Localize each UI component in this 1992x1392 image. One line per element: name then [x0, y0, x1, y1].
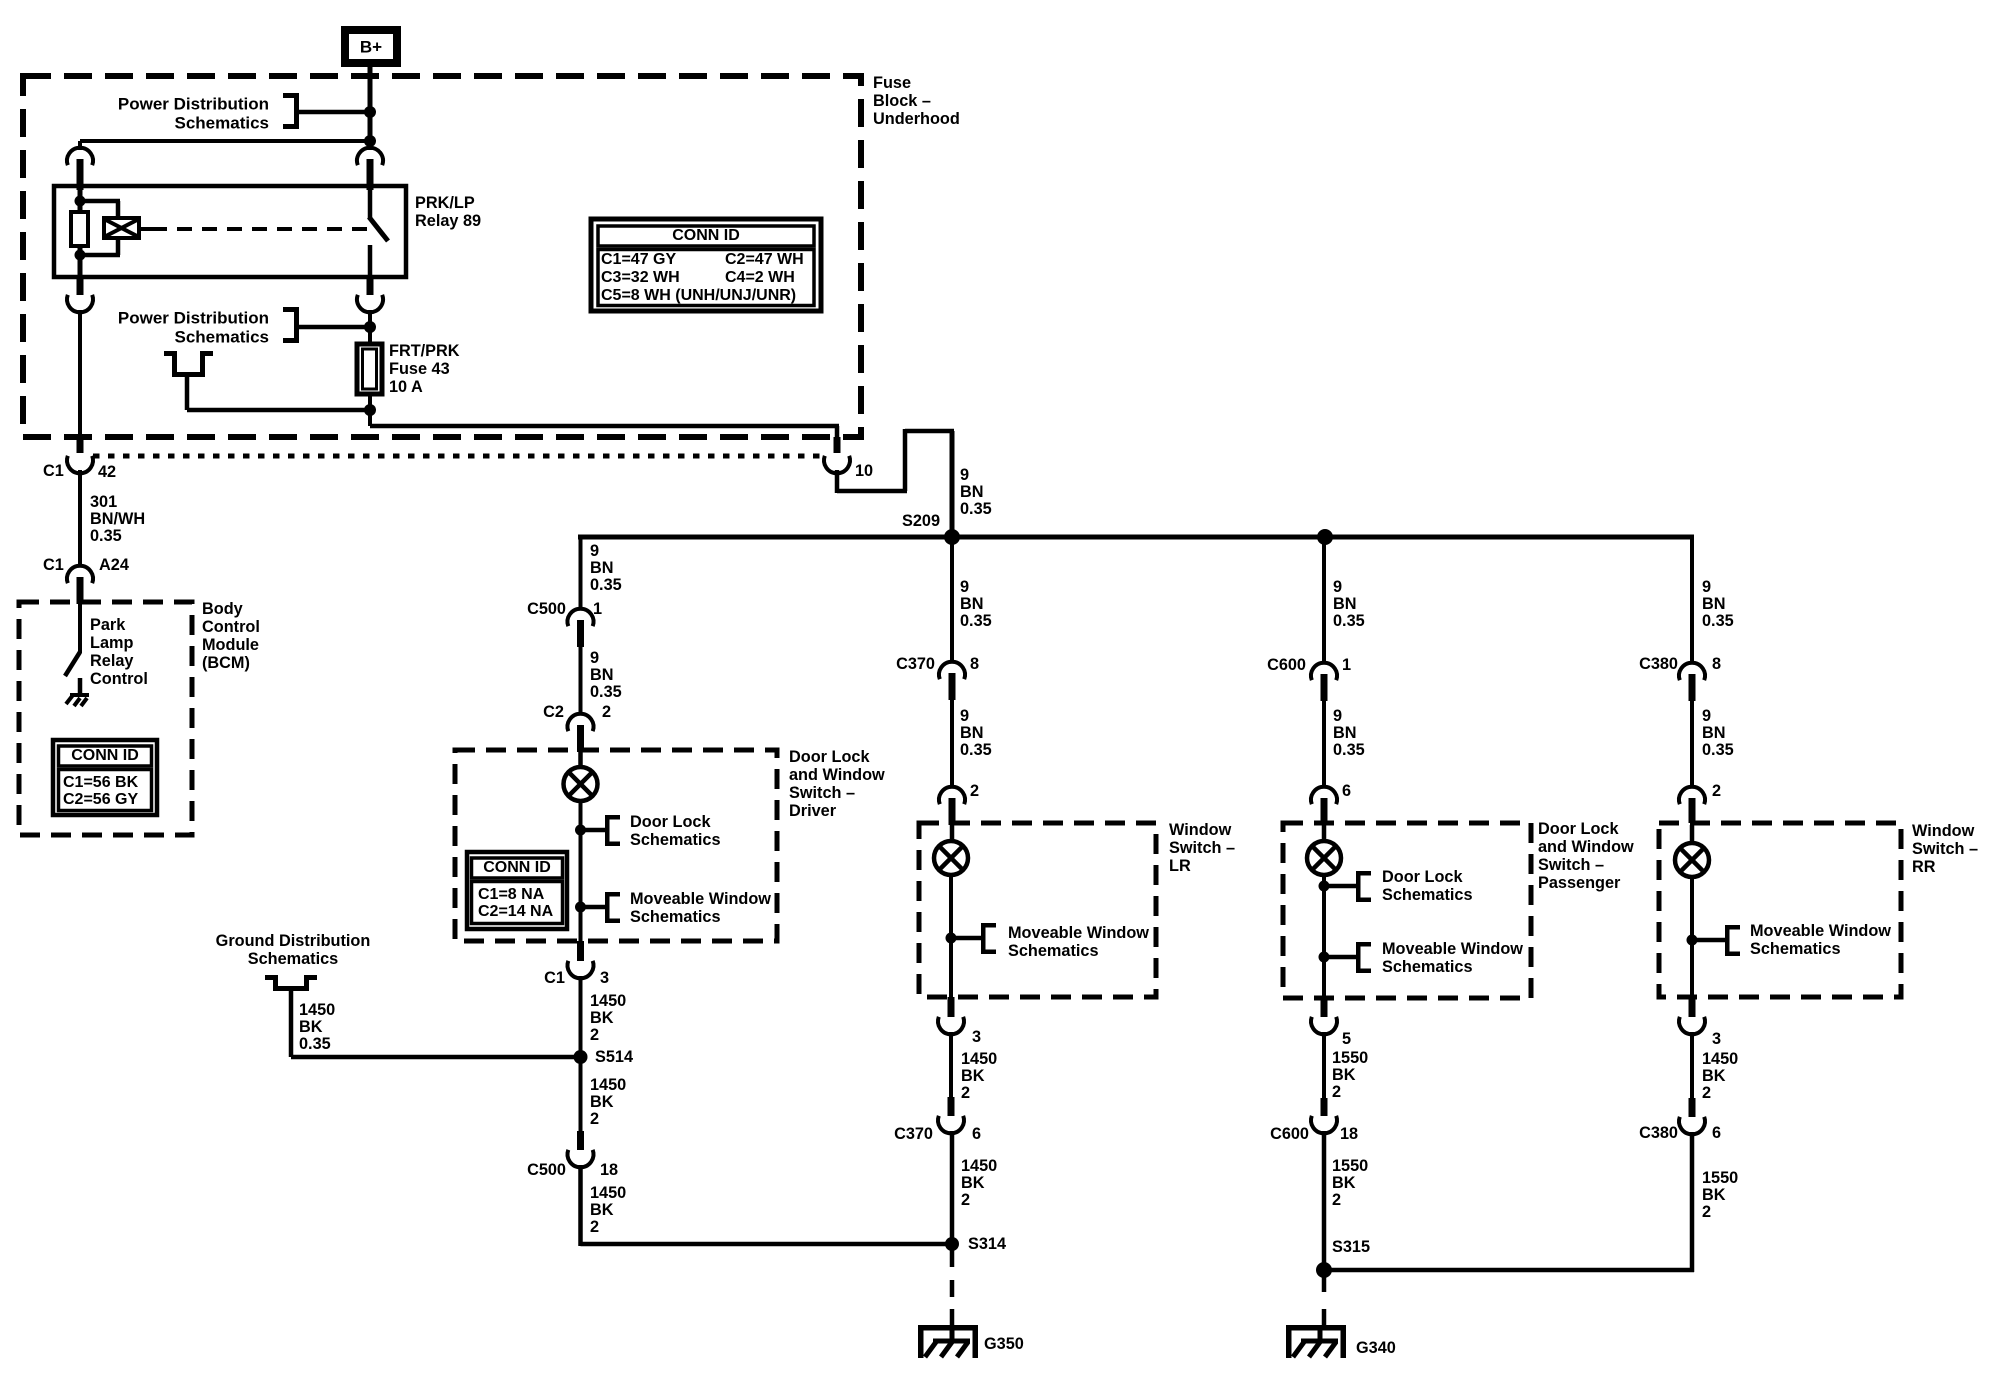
- svg-text:BN: BN: [960, 595, 984, 613]
- wire C1-3 to S514: [579, 976, 583, 1057]
- wire into lamp (LR): [950, 825, 955, 842]
- svg-text:9: 9: [960, 707, 969, 725]
- connector C2 pin 2: [543, 703, 611, 721]
- svg-text:2: 2: [1332, 1191, 1341, 1209]
- svg-text:and Window: and Window: [1538, 838, 1634, 856]
- tap under Ground Distribution: [265, 975, 317, 1057]
- svg-text:1550: 1550: [1702, 1169, 1738, 1187]
- wire S209 to C370-8: [950, 537, 954, 663]
- svg-text:2: 2: [590, 1026, 599, 1044]
- label G340: [1356, 1339, 1396, 1357]
- svg-text:Fuse: Fuse: [873, 74, 911, 92]
- svg-text:BK: BK: [1702, 1067, 1726, 1085]
- label Door Lock and Window Switch - Passenger: [1538, 820, 1634, 892]
- svg-text:1550: 1550: [1332, 1049, 1368, 1067]
- label 9 BN 0.35 (passenger lower): [1333, 707, 1365, 759]
- label 1450 BK 2 (driver mid): [590, 1076, 626, 1128]
- BCM internal ground: [66, 693, 89, 706]
- svg-text:C500: C500: [527, 1161, 566, 1179]
- svg-text:Moveable Window: Moveable Window: [630, 890, 771, 908]
- svg-text:8: 8: [970, 655, 979, 673]
- svg-text:Power Distribution: Power Distribution: [118, 95, 269, 114]
- svg-text:CONN ID: CONN ID: [71, 747, 139, 764]
- tap under Power Distribution (lower): [164, 351, 370, 412]
- junction moveable window tap (driver): [575, 902, 605, 913]
- svg-text:Relay 89: Relay 89: [415, 212, 481, 230]
- svg-text:Door Lock: Door Lock: [1382, 868, 1463, 886]
- main distribution bus: [578, 535, 1694, 540]
- relay switch contacts: [368, 190, 388, 277]
- svg-text:LR: LR: [1169, 857, 1191, 875]
- svg-text:A24: A24: [99, 556, 129, 574]
- wire C370-6 to S314: [950, 1131, 955, 1244]
- wire relay switch to fuse: [364, 310, 376, 344]
- svg-text:Block –: Block –: [873, 92, 931, 110]
- connector C500 pin 1: [527, 600, 602, 618]
- svg-text:Schematics: Schematics: [630, 908, 721, 926]
- label Moveable Window Schematics (passenger): [1382, 940, 1523, 976]
- svg-text:Park: Park: [90, 616, 126, 634]
- ground G350: [918, 1325, 978, 1358]
- svg-text:6: 6: [1342, 782, 1351, 800]
- window switch LR dashed box: [919, 823, 1156, 997]
- svg-text:BK: BK: [590, 1009, 614, 1027]
- label 1450 BK 2 (RR upper): [1702, 1050, 1738, 1102]
- svg-text:RR: RR: [1912, 858, 1936, 876]
- label 1550 BK 2 (RR lower): [1702, 1169, 1738, 1221]
- wire S315 to RR branch: [1324, 1268, 1694, 1273]
- connector C380 pin 6: [1679, 1098, 1705, 1134]
- connector C370 pin 6: [938, 1097, 964, 1133]
- svg-text:BN: BN: [1333, 724, 1357, 742]
- label Moveable Window Schematics (LR): [1008, 924, 1149, 960]
- wire fuse block output run: [370, 424, 839, 437]
- svg-text:2: 2: [590, 1218, 599, 1236]
- fuse block underhood dashed box: [23, 76, 861, 437]
- svg-text:S315: S315: [1332, 1238, 1370, 1256]
- splice S314: [945, 1235, 1006, 1253]
- svg-text:Fuse 43: Fuse 43: [389, 360, 450, 378]
- svg-text:6: 6: [972, 1125, 981, 1143]
- relay actuating dashed link: [139, 227, 375, 231]
- svg-text:C600: C600: [1267, 656, 1306, 674]
- wire relay to C1-42: [78, 310, 82, 437]
- bracket Moveable Window Schematics (RR): [1725, 925, 1740, 956]
- splice S315: [1316, 1238, 1370, 1278]
- svg-text:0.35: 0.35: [590, 683, 622, 701]
- wire C500-18 to S314: [578, 1165, 952, 1246]
- svg-text:S314: S314: [968, 1235, 1006, 1253]
- svg-text:Switch –: Switch –: [1169, 839, 1235, 857]
- wire C380-6 to S315 run: [1690, 1132, 1695, 1272]
- svg-text:and Window: and Window: [789, 766, 885, 784]
- svg-text:Schematics: Schematics: [248, 950, 339, 968]
- indicator lamp (passenger): [1307, 841, 1341, 875]
- wire lamp to tap (RR): [1690, 876, 1694, 997]
- connector C380 pin 8: [1639, 655, 1721, 673]
- wire from 10 to S209: [835, 429, 955, 537]
- svg-text:G350: G350: [984, 1335, 1024, 1353]
- label 1450 BK 2 (LR upper): [961, 1050, 997, 1102]
- label C1 42: [43, 462, 116, 481]
- svg-text:0.35: 0.35: [90, 527, 122, 545]
- indicator lamp (driver): [564, 767, 598, 801]
- svg-text:Door Lock: Door Lock: [789, 748, 870, 766]
- svg-text:9: 9: [960, 578, 969, 596]
- junction at passenger branch: [1317, 529, 1333, 545]
- relay PRK/LP Relay 89 box: [54, 186, 406, 277]
- connector at relay pin (coil): [67, 148, 93, 190]
- svg-text:C370: C370: [896, 655, 935, 673]
- label PRK/LP Relay 89: [415, 194, 481, 230]
- label Door Lock Schematics (passenger): [1382, 868, 1473, 904]
- label Body Control Module (BCM): [202, 600, 260, 672]
- wire C1-42 to C1-A24: [78, 470, 82, 567]
- svg-text:2: 2: [602, 703, 611, 721]
- svg-text:Schematics: Schematics: [630, 831, 721, 849]
- svg-text:2: 2: [1702, 1084, 1711, 1102]
- connector pin 5 (passenger): [1311, 998, 1337, 1034]
- wire pin3 to C380-6: [1690, 1032, 1694, 1098]
- label 301 BN/WH 0.35: [90, 493, 145, 545]
- svg-text:BK: BK: [590, 1201, 614, 1219]
- power feed B+ terminal: [341, 26, 401, 67]
- svg-text:Schematics: Schematics: [1750, 940, 1841, 958]
- svg-text:1450: 1450: [1702, 1050, 1738, 1068]
- svg-text:BK: BK: [961, 1174, 985, 1192]
- ground G340: [1286, 1325, 1346, 1358]
- svg-text:3: 3: [972, 1028, 981, 1046]
- driver door switch dashed box: [455, 750, 777, 941]
- wire C380-8 to switch: [1690, 701, 1694, 788]
- label 9 BN 0.35 (RR upper): [1702, 578, 1734, 630]
- svg-text:Schematics: Schematics: [1382, 958, 1473, 976]
- junction moveable window tap (passenger): [1319, 952, 1357, 963]
- connector C600 pin 1: [1267, 656, 1351, 674]
- connector C500 pin 18: [568, 1131, 594, 1167]
- svg-text:0.35: 0.35: [960, 741, 992, 759]
- junction moveable window tap (RR): [1687, 935, 1726, 946]
- wire C600-18 to S315: [1322, 1131, 1327, 1270]
- label FRT/PRK Fuse 43 10 A: [389, 342, 460, 396]
- relay solid-state device (diode box): [104, 218, 139, 238]
- indicator lamp (RR): [1675, 843, 1709, 877]
- svg-text:S209: S209: [902, 512, 940, 530]
- svg-text:Relay: Relay: [90, 652, 133, 670]
- bracket Moveable Window Schematics (LR): [981, 923, 996, 954]
- svg-text:C2=14 NA: C2=14 NA: [478, 903, 554, 920]
- svg-text:9: 9: [1333, 707, 1342, 725]
- svg-text:18: 18: [1340, 1125, 1358, 1143]
- label Moveable Window Schematics (driver): [630, 890, 771, 926]
- svg-text:C4=2 WH: C4=2 WH: [725, 269, 795, 286]
- svg-text:Underhood: Underhood: [873, 110, 960, 128]
- svg-text:Switch –: Switch –: [789, 784, 855, 802]
- svg-text:9: 9: [1333, 578, 1342, 596]
- connector pin 3 (RR): [1679, 997, 1705, 1034]
- connector C1 pin 3: [568, 941, 594, 978]
- svg-text:Lamp: Lamp: [90, 634, 133, 652]
- svg-text:0.35: 0.35: [960, 612, 992, 630]
- bracket to Power Distribution (top): [283, 93, 370, 129]
- splice S209: [902, 512, 960, 545]
- wire across to relay coil side: [78, 139, 370, 150]
- wire pin3 to C370-6: [949, 1032, 953, 1097]
- fuse block CONN ID table: [591, 219, 821, 311]
- connector pin 2 (LR): [970, 782, 979, 800]
- label 9 BN 0.35 (driver lower): [590, 649, 622, 701]
- wire lamp to door lock tap: [579, 800, 583, 903]
- svg-text:C1: C1: [43, 462, 64, 480]
- bracket Moveable Window Schematics (driver): [605, 892, 620, 923]
- relay coil branch: [75, 190, 121, 218]
- wire bus to C380-8: [1690, 537, 1694, 664]
- label Door Lock Schematics (driver): [630, 813, 721, 849]
- wire into lamp: [578, 752, 583, 768]
- svg-text:0.35: 0.35: [1702, 741, 1734, 759]
- relay coil (winding): [71, 212, 88, 246]
- connector pin 3 (LR): [938, 997, 964, 1034]
- driver CONN ID table: [467, 852, 567, 929]
- indicator lamp (LR): [934, 841, 968, 875]
- svg-text:5: 5: [1342, 1030, 1351, 1048]
- svg-text:Module: Module: [202, 636, 259, 654]
- svg-text:G340: G340: [1356, 1339, 1396, 1357]
- svg-text:Moveable Window: Moveable Window: [1008, 924, 1149, 942]
- BCM dashed box: [19, 602, 192, 835]
- label 1450 BK 2 (LR lower): [961, 1157, 997, 1209]
- svg-text:BN/WH: BN/WH: [90, 510, 145, 528]
- label 9 BN 0.35 (LR upper): [960, 578, 992, 630]
- svg-text:PRK/LP: PRK/LP: [415, 194, 475, 212]
- svg-text:Body: Body: [202, 600, 243, 618]
- svg-text:(BCM): (BCM): [202, 654, 250, 672]
- svg-text:C2: C2: [543, 703, 564, 721]
- dashed drop S315 to G340: [1322, 1270, 1327, 1326]
- connector 10 at fuse block exit: [824, 437, 850, 473]
- connector C370 pin 8: [896, 655, 979, 673]
- svg-text:1450: 1450: [961, 1157, 997, 1175]
- svg-text:C500: C500: [527, 600, 566, 618]
- svg-text:8: 8: [1712, 655, 1721, 673]
- svg-text:Schematics: Schematics: [175, 328, 270, 347]
- svg-text:C380: C380: [1639, 1124, 1678, 1142]
- svg-text:3: 3: [1712, 1030, 1721, 1048]
- connector C600 pin 18: [1311, 1098, 1337, 1133]
- svg-text:BK: BK: [590, 1093, 614, 1111]
- svg-text:BN: BN: [590, 666, 614, 684]
- svg-text:Control: Control: [202, 618, 260, 636]
- svg-text:Door Lock: Door Lock: [1538, 820, 1619, 838]
- connector below relay (switch side): [357, 277, 383, 312]
- svg-text:1: 1: [593, 600, 602, 618]
- label Park Lamp Relay Control: [90, 616, 148, 688]
- label Window Switch - RR: [1912, 822, 1978, 876]
- svg-text:0.35: 0.35: [1702, 612, 1734, 630]
- svg-text:Switch –: Switch –: [1538, 856, 1604, 874]
- connector pin 2 (RR): [1712, 782, 1721, 800]
- svg-text:0.35: 0.35: [1333, 741, 1365, 759]
- svg-text:9: 9: [960, 466, 969, 484]
- svg-text:B+: B+: [360, 38, 382, 57]
- svg-text:Window: Window: [1912, 822, 1975, 840]
- svg-text:0.35: 0.35: [590, 576, 622, 594]
- wire bus to C600-1: [1322, 537, 1326, 664]
- label Power Distribution Schematics (lower): [118, 309, 269, 347]
- svg-text:2: 2: [970, 782, 979, 800]
- wire B+ down to relay: [368, 67, 373, 150]
- fuse FRT/PRK Fuse 43: [357, 344, 382, 394]
- svg-text:CONN ID: CONN ID: [672, 227, 740, 244]
- junction at relay feed split: [364, 135, 376, 147]
- connector C1 pin A24: [43, 556, 129, 574]
- label 9 BN 0.35 (feed): [960, 466, 992, 518]
- bracket Door Lock Schematics (passenger): [1356, 871, 1371, 902]
- wire into lamp (RR): [1690, 825, 1695, 844]
- wire pin5 to C600-18: [1322, 1032, 1326, 1098]
- svg-text:BN: BN: [1702, 724, 1726, 742]
- svg-text:C1: C1: [43, 556, 64, 574]
- label Ground Distribution Schematics: [216, 932, 371, 968]
- label 9 BN 0.35 (RR lower): [1702, 707, 1734, 759]
- svg-text:C2=56 GY: C2=56 GY: [63, 791, 138, 808]
- svg-text:BK: BK: [961, 1067, 985, 1085]
- svg-text:BK: BK: [1332, 1066, 1356, 1084]
- label 10: [855, 462, 873, 480]
- junction door lock tap (driver): [575, 825, 605, 836]
- svg-text:Door Lock: Door Lock: [630, 813, 711, 831]
- bracket Moveable Window Schematics (passenger): [1356, 942, 1371, 973]
- svg-text:FRT/PRK: FRT/PRK: [389, 342, 460, 360]
- svg-text:C380: C380: [1639, 655, 1678, 673]
- label 9 BN 0.35 (LR lower): [960, 707, 992, 759]
- label 9 BN 0.35 (passenger upper): [1333, 578, 1365, 630]
- svg-text:1450: 1450: [590, 1184, 626, 1202]
- svg-text:9: 9: [590, 649, 599, 667]
- dashed drop S314 to G350: [950, 1244, 955, 1326]
- park lamp relay control switch: [65, 604, 82, 694]
- svg-text:9: 9: [1702, 707, 1711, 725]
- svg-text:42: 42: [98, 463, 116, 481]
- svg-text:Ground Distribution: Ground Distribution: [216, 932, 371, 950]
- svg-text:10: 10: [855, 462, 873, 480]
- svg-text:1450: 1450: [299, 1001, 335, 1019]
- connector below relay (coil side): [67, 277, 93, 312]
- label 1550 BK 2 (passenger lower): [1332, 1157, 1368, 1209]
- svg-text:2: 2: [961, 1191, 970, 1209]
- svg-text:Control: Control: [90, 670, 148, 688]
- splice S514: [574, 1048, 634, 1066]
- svg-text:1: 1: [1342, 656, 1351, 674]
- svg-text:C2=47 WH: C2=47 WH: [725, 251, 804, 268]
- wire C500-1 to C2-2: [579, 647, 583, 715]
- junction door lock tap (passenger): [1319, 881, 1357, 892]
- label 1450 BK 2 (driver upper): [590, 992, 626, 1044]
- label 1550 BK 2 (passenger upper): [1332, 1049, 1368, 1101]
- svg-text:1450: 1450: [590, 992, 626, 1010]
- svg-text:9: 9: [1702, 578, 1711, 596]
- svg-text:301: 301: [90, 493, 117, 511]
- svg-text:0.35: 0.35: [1333, 612, 1365, 630]
- svg-text:2: 2: [590, 1110, 599, 1128]
- label Window Switch - LR: [1169, 821, 1235, 875]
- svg-text:Schematics: Schematics: [1382, 886, 1473, 904]
- wire C600-1 to switch: [1322, 701, 1326, 788]
- svg-text:1550: 1550: [1332, 1157, 1368, 1175]
- svg-text:Switch –: Switch –: [1912, 840, 1978, 858]
- svg-text:Passenger: Passenger: [1538, 874, 1621, 892]
- connector row dotted line: [93, 454, 820, 459]
- svg-text:BN: BN: [960, 483, 984, 501]
- svg-text:C1: C1: [544, 969, 565, 987]
- connector at relay pin (switch): [357, 148, 383, 190]
- wire ground distribution to S514: [291, 1055, 581, 1060]
- svg-text:BK: BK: [1702, 1186, 1726, 1204]
- svg-text:2: 2: [1702, 1203, 1711, 1221]
- svg-text:BK: BK: [299, 1018, 323, 1036]
- wire C370-8 to window switch: [950, 700, 954, 788]
- svg-text:Driver: Driver: [789, 802, 837, 820]
- svg-text:18: 18: [600, 1161, 618, 1179]
- svg-text:CONN ID: CONN ID: [483, 859, 551, 876]
- label Power Distribution Schematics (top): [118, 95, 269, 133]
- relay coil lower branch: [75, 238, 121, 277]
- svg-text:C1=8 NA: C1=8 NA: [478, 886, 545, 903]
- connector C1 pin 42: [67, 437, 93, 473]
- connector pin 6 (passenger): [1342, 782, 1351, 800]
- label G350: [984, 1335, 1024, 1353]
- svg-text:BN: BN: [590, 559, 614, 577]
- svg-text:BN: BN: [1333, 595, 1357, 613]
- svg-text:C370: C370: [894, 1125, 933, 1143]
- svg-text:C1=56 BK: C1=56 BK: [63, 774, 139, 791]
- svg-text:C1=47 GY: C1=47 GY: [601, 251, 676, 268]
- svg-text:BN: BN: [1702, 595, 1726, 613]
- wire into lamp (passenger): [1322, 825, 1327, 842]
- label Door Lock and Window Switch - Driver: [789, 748, 885, 820]
- svg-text:6: 6: [1712, 1124, 1721, 1142]
- svg-text:2: 2: [1712, 782, 1721, 800]
- svg-text:1450: 1450: [961, 1050, 997, 1068]
- bracket Door Lock Schematics (driver): [605, 815, 620, 846]
- svg-text:10 A: 10 A: [389, 378, 423, 396]
- junction moveable window tap (LR): [946, 933, 982, 944]
- svg-text:BN: BN: [960, 724, 984, 742]
- window switch RR dashed box: [1659, 823, 1901, 997]
- svg-text:3: 3: [600, 969, 609, 987]
- wire below fuse: [364, 394, 376, 426]
- svg-text:0.35: 0.35: [299, 1035, 331, 1053]
- svg-text:C600: C600: [1270, 1125, 1309, 1143]
- svg-text:C5=8 WH (UNH/UNJ/UNR): C5=8 WH (UNH/UNJ/UNR): [601, 287, 796, 304]
- BCM CONN ID table: [53, 740, 157, 815]
- wire bus to C500-1: [579, 537, 583, 610]
- junction at B+ wire and PD tap: [364, 106, 376, 118]
- svg-text:Schematics: Schematics: [1008, 942, 1099, 960]
- label 1450 BK 0.35: [299, 1001, 335, 1053]
- svg-text:Moveable Window: Moveable Window: [1750, 922, 1891, 940]
- svg-text:2: 2: [961, 1084, 970, 1102]
- svg-text:C3=32 WH: C3=32 WH: [601, 269, 680, 286]
- svg-text:Schematics: Schematics: [175, 114, 270, 133]
- svg-text:BK: BK: [1332, 1174, 1356, 1192]
- svg-text:9: 9: [590, 542, 599, 560]
- svg-text:Power Distribution: Power Distribution: [118, 309, 269, 328]
- label 9 BN 0.35 (driver upper): [590, 542, 622, 594]
- passenger door switch dashed box: [1283, 823, 1531, 998]
- wire S514 to C500-18: [579, 1057, 583, 1131]
- wire lamp to tap (LR): [949, 874, 953, 997]
